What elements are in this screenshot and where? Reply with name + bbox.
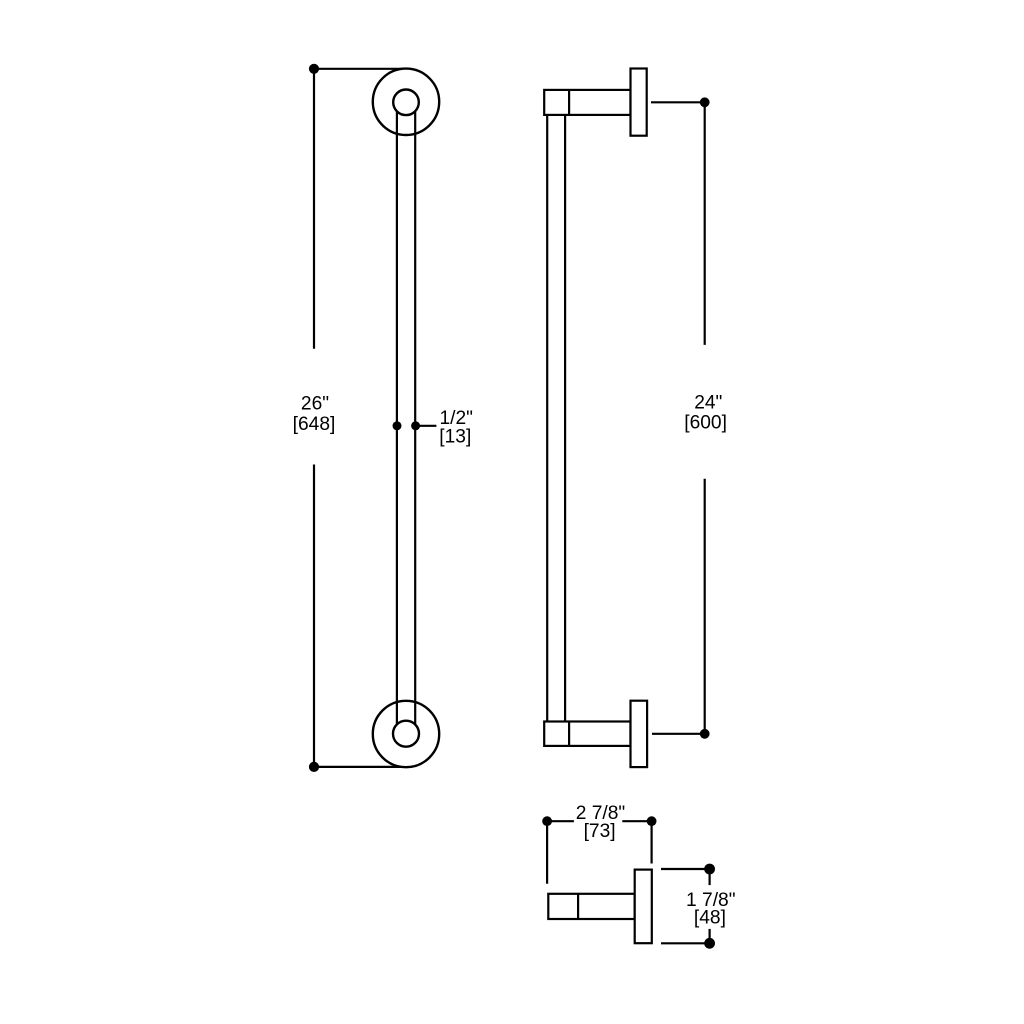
- dimension dot top-left of 26" dimension: [309, 64, 319, 74]
- 1 7/8" vertical dimension line lower segment: [708, 929, 710, 943]
- svg-text:[48]: [48]: [694, 907, 726, 928]
- bottom bracket divider line: [568, 722, 570, 746]
- 24" top leader: [651, 101, 705, 103]
- 1/2" right dot on bar: [411, 421, 420, 430]
- svg-text:24": 24": [694, 393, 722, 414]
- top flange inner circle: [393, 90, 419, 116]
- 24" bottom leader: [652, 733, 705, 735]
- svg-text:[648]: [648]: [293, 414, 336, 435]
- 1 7/8" top leader: [661, 868, 710, 870]
- 2 7/8" left dimension dot: [542, 816, 552, 826]
- top bracket divider line: [568, 90, 570, 115]
- svg-text:26": 26": [301, 394, 329, 415]
- 1 7/8" top dimension dot: [704, 864, 715, 875]
- detail wall plate rect: [635, 870, 652, 944]
- detail arm rect: [548, 894, 634, 919]
- 2 7/8" dimension line right segment: [622, 820, 651, 822]
- bar right edge line: [414, 102, 416, 734]
- 24" bottom dimension dot: [700, 729, 710, 739]
- 26" vertical dimension line lower segment: [313, 465, 315, 767]
- bottom bracket arm rect: [544, 722, 630, 746]
- side bar right edge line: [564, 115, 566, 722]
- dimension dot bottom-left of 26" dimension: [309, 762, 319, 772]
- 1/2" leader line: [416, 425, 437, 427]
- 26" vertical dimension line upper segment: [313, 69, 315, 349]
- 2 7/8" right dimension dot: [647, 816, 657, 826]
- bottom horizontal leader to flange: [314, 766, 406, 768]
- top wall plate rect: [631, 69, 647, 136]
- 1 7/8" vertical dimension line upper segment: [708, 869, 710, 885]
- top bracket arm rect: [544, 90, 630, 115]
- top horizontal leader to flange: [314, 68, 406, 70]
- bottom flange outer circle: [373, 701, 439, 767]
- 24" vertical dimension line lower segment: [704, 479, 706, 734]
- bottom flange inner circle: [393, 721, 419, 747]
- bottom wall plate rect: [631, 701, 648, 767]
- 1/2" left dot on bar: [393, 421, 402, 430]
- 1 7/8" bottom dimension dot: [704, 938, 715, 949]
- 2 7/8" right extension line: [650, 821, 652, 863]
- detail divider line: [577, 894, 579, 919]
- svg-text:[13]: [13]: [439, 427, 471, 448]
- 24" vertical dimension line upper segment: [704, 102, 706, 345]
- 1 7/8" bottom leader: [661, 942, 710, 944]
- 24" top dimension dot: [700, 97, 710, 107]
- 2 7/8" dimension line left segment: [547, 820, 574, 822]
- top flange outer circle: [373, 69, 439, 135]
- bar left edge line: [396, 102, 398, 734]
- 2 7/8" left extension line: [546, 821, 548, 884]
- svg-text:[600]: [600]: [684, 413, 727, 434]
- side bar left edge line: [546, 115, 548, 722]
- svg-text:[73]: [73]: [584, 821, 616, 842]
